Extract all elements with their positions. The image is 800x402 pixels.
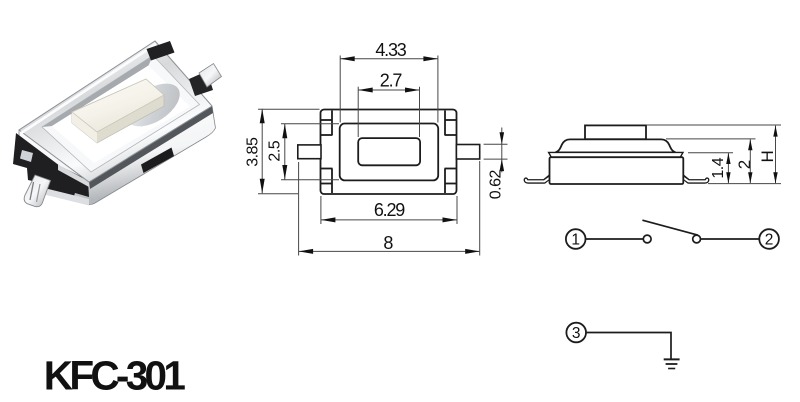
photo: black tab right end (189, 71, 213, 96)
side view: left gull-wing lead (526, 176, 551, 181)
dimension 0.62 line (501, 128, 503, 173)
top view: corner tab top-right (444, 111, 446, 136)
schematic: wire pin1 to left contact (586, 238, 644, 240)
dimension 4.33 line (340, 58, 438, 60)
schematic: ground symbol (664, 358, 680, 360)
dimension 8 line (299, 250, 480, 252)
dimension 3.85 line (261, 109, 263, 194)
dimension 2.7 line (358, 89, 419, 91)
dimension 4.33 extension lines (339, 56, 341, 123)
top view: right terminal lead (456, 145, 479, 160)
top view: corner tab bottom-right (444, 169, 446, 194)
photo: black tab top (147, 41, 175, 61)
schematic: switch lever (642, 220, 697, 235)
svg-text:2.7: 2.7 (380, 70, 403, 90)
dimension H line (775, 126, 777, 184)
dimension 2.7 extension lines (357, 87, 359, 137)
side view: right gull-wing lead (682, 176, 707, 181)
side view: body (550, 157, 684, 184)
photo: frame recess bevel (42, 56, 200, 173)
photo: frame edge highlight (20, 43, 156, 135)
schematic: pin 2 terminal (759, 229, 779, 249)
svg-text:2.5: 2.5 (267, 140, 284, 161)
photo: metal top frame (19, 41, 212, 182)
photo: dome shading (119, 75, 187, 135)
photo: bevel wall shadow (42, 56, 153, 128)
dimension 2.5 line (284, 124, 286, 180)
side view: dome cover (556, 139, 676, 152)
schematic: pin 3 terminal (566, 323, 586, 343)
photo: bottom flange strip (28, 185, 89, 206)
photo: switch body side faces (19, 41, 216, 205)
svg-text:8: 8 (383, 233, 393, 253)
side view: top plate (549, 152, 683, 157)
svg-text:0.62: 0.62 (487, 170, 504, 200)
photo: metal clip on base (20, 150, 33, 162)
photo: metal lead bottom-left (24, 175, 50, 207)
schematic: wire right contact to pin2 (701, 238, 760, 240)
schematic: pin 1 terminal (566, 229, 586, 249)
svg-text:4.33: 4.33 (375, 40, 406, 60)
photo: black notch front face (141, 148, 174, 174)
schematic: left contact (643, 235, 651, 243)
svg-text:2: 2 (765, 232, 774, 249)
svg-text:3: 3 (572, 325, 581, 342)
top view: inner recess outline (340, 124, 439, 181)
photo: shadow under front lip (89, 106, 213, 189)
svg-text:1.4: 1.4 (710, 157, 727, 178)
photo: recess floor (52, 66, 190, 164)
svg-text:2: 2 (735, 160, 754, 169)
dimension 6.29 extension lines (320, 196, 322, 224)
dimension 2 extension lines (666, 138, 756, 140)
svg-text:1: 1 (571, 232, 580, 249)
photo: bright sliver above base (58, 165, 89, 188)
dimension 2 line (749, 139, 751, 183)
top view: switch body outline (321, 110, 457, 195)
top view: left terminal lead (298, 145, 321, 159)
top view: button outline (358, 138, 420, 165)
photo: metal lead top-right (199, 64, 222, 88)
photo: button side faces (72, 79, 164, 143)
svg-text:3.85: 3.85 (244, 137, 261, 167)
dimension 2.5 extension lines (281, 123, 339, 125)
dimension 6.29 line (321, 219, 457, 221)
schematic: wire pin3 to ground (586, 333, 671, 360)
dimension 1.4 extension lines (688, 152, 733, 154)
photo: button front face highlight (72, 112, 97, 143)
dimension 1.4 line (727, 153, 729, 183)
dimension H extension lines (647, 124, 781, 126)
side view: button (585, 125, 646, 139)
dimension 3.85 extension lines (258, 108, 320, 110)
svg-text:KFC-301: KFC-301 (44, 353, 186, 398)
photo: button top face (72, 79, 164, 132)
photo: black plastic base left end (13, 133, 89, 199)
dimension 0.62 extension lines (484, 143, 508, 145)
top view: corner tab top-left (331, 111, 333, 136)
svg-text:H: H (758, 150, 777, 162)
svg-text:6.29: 6.29 (374, 200, 405, 220)
top view: corner tab bottom-left (331, 169, 333, 194)
dimension 8 extension lines (298, 162, 300, 256)
schematic: right contact (693, 235, 701, 243)
